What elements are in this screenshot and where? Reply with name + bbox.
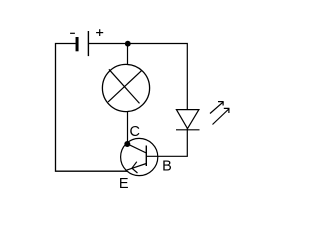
- svg-text:C: C: [130, 124, 140, 140]
- svg-text:B: B: [162, 159, 172, 175]
- svg-text:E: E: [119, 176, 129, 192]
